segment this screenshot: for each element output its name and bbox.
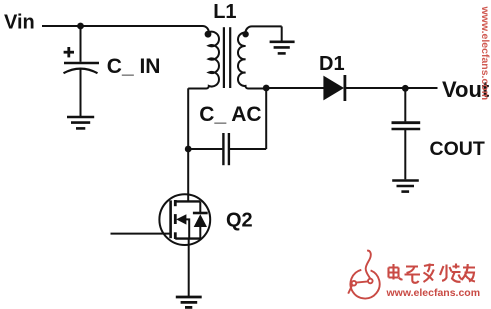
svg-text:www.elecfans.com: www.elecfans.com	[479, 6, 491, 101]
wire L1 secondary top to ground	[281, 26, 283, 41]
wire C_AC node to left plate	[188, 148, 222, 150]
ground below COUT	[392, 181, 419, 192]
watermark text dian (stylized)	[389, 264, 403, 280]
svg-text:L1: L1	[213, 1, 236, 23]
L1 secondary phase dot	[242, 31, 248, 37]
ground below Q2	[176, 297, 202, 307]
transistor Q2 body circle	[159, 194, 210, 245]
wire COUT to ground	[404, 130, 406, 179]
diode D1	[323, 75, 345, 101]
svg-text:D1: D1	[319, 53, 345, 75]
L1 primary phase dot	[205, 31, 212, 38]
wire Q2 source to ground	[188, 239, 190, 296]
svg-text:Vin: Vin	[4, 12, 35, 34]
wire junction down to C_AC right	[265, 88, 267, 149]
Q2 channel segments	[174, 200, 177, 239]
ground at L1 secondary top	[270, 42, 295, 54]
watermark text zi (stylized)	[405, 267, 421, 283]
svg-text:www.elecfans.com: www.elecfans.com	[386, 287, 481, 299]
ground below C_IN	[67, 117, 94, 128]
wire Vout node down to COUT	[404, 88, 406, 121]
wire L1 primary bottom down to C_AC node	[187, 88, 189, 149]
wire D1 cathode to Vout	[344, 87, 438, 89]
capacitor C_AC	[223, 133, 229, 165]
node junction Vin/C_IN	[77, 23, 84, 30]
wire C_AC right plate to junction vertical	[230, 148, 266, 150]
inductor L1 secondary winding	[238, 26, 282, 88]
svg-text:Q2: Q2	[226, 209, 253, 231]
Q2 drain bar	[175, 200, 200, 202]
inductor L1 primary winding	[188, 26, 219, 89]
Q2 gate bar	[169, 200, 172, 238]
capacitor COUT	[392, 123, 421, 129]
Q2 body diode	[193, 201, 208, 238]
svg-text:COUT: COUT	[430, 138, 485, 160]
capacitor C_IN	[64, 63, 100, 73]
wire Vin to L1 top	[42, 25, 203, 27]
Q2 substrate arrow	[176, 214, 189, 238]
svg-text:C_ AC: C_ AC	[199, 103, 261, 126]
wire C_IN to ground	[80, 69, 82, 116]
L1 core lines	[224, 27, 230, 88]
node junction C_AC left	[185, 146, 192, 153]
node junction Vout/COUT	[402, 85, 409, 92]
watermark text fa (stylized)	[424, 264, 435, 283]
capacitor C_IN plus sign	[64, 47, 74, 57]
watermark logo elecfans	[348, 251, 379, 299]
wire Q2 gate stub	[111, 233, 171, 235]
watermark text shao (stylized)	[440, 264, 462, 282]
watermark text you (stylized)	[462, 264, 476, 282]
wire C_AC node down to Q2 drain	[187, 149, 189, 201]
Q2 source bar	[175, 237, 200, 239]
node junction L1/D1/C_AC	[263, 85, 270, 92]
wire junction to D1 anode	[266, 87, 324, 89]
wire C_IN branch down	[80, 26, 82, 62]
svg-text:C_ IN: C_ IN	[107, 55, 161, 78]
